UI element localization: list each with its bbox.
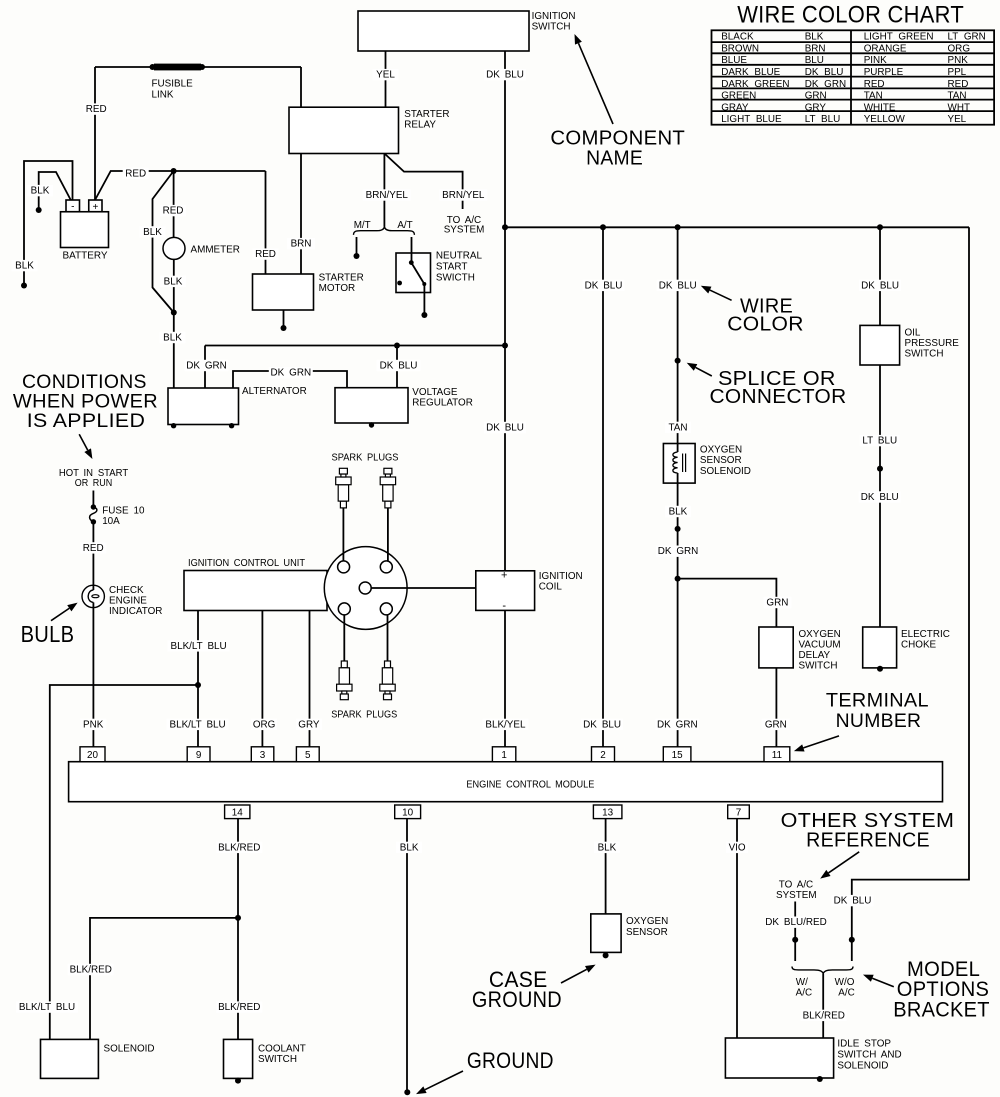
svg-text:SWICTH: SWICTH (436, 273, 475, 284)
svg-text:-: - (71, 202, 74, 213)
svg-text:VACUUM: VACUUM (799, 639, 841, 650)
svg-text:11: 11 (772, 750, 783, 761)
svg-text:REGULATOR: REGULATOR (412, 397, 473, 408)
svg-text:BLACK: BLACK (721, 32, 754, 43)
svg-text:CHECK: CHECK (109, 585, 144, 596)
svg-text:DK BLU: DK BLU (805, 67, 844, 78)
svg-text:3: 3 (260, 750, 266, 761)
svg-text:BRACKET: BRACKET (893, 998, 990, 1021)
svg-text:RED: RED (948, 79, 969, 90)
svg-text:ORG: ORG (253, 719, 276, 730)
svg-text:BROWN: BROWN (721, 43, 759, 54)
svg-text:IDLE STOP: IDLE STOP (837, 1039, 891, 1050)
svg-text:DK BLU: DK BLU (486, 70, 524, 81)
svg-text:BRN: BRN (291, 239, 312, 250)
svg-text:GROUND: GROUND (467, 1048, 554, 1073)
svg-text:INDICATOR: INDICATOR (109, 606, 162, 617)
svg-text:BLK: BLK (400, 842, 419, 853)
svg-text:LIGHT GREEN: LIGHT GREEN (864, 32, 934, 43)
svg-text:IGNITION: IGNITION (539, 571, 583, 582)
svg-text:SYSTEM: SYSTEM (776, 890, 817, 901)
svg-text:COLOR: COLOR (727, 313, 804, 335)
svg-text:14: 14 (232, 808, 243, 819)
svg-text:BLK/RED: BLK/RED (70, 964, 112, 975)
svg-text:SWITCH: SWITCH (905, 349, 944, 360)
svg-text:W/O: W/O (835, 977, 855, 988)
svg-text:AMMETER: AMMETER (191, 245, 240, 256)
svg-text:PINK: PINK (864, 55, 887, 66)
svg-text:DK GRN: DK GRN (658, 546, 699, 557)
svg-text:DK BLU: DK BLU (861, 492, 899, 503)
svg-text:SWITCH AND: SWITCH AND (837, 1050, 901, 1061)
svg-text:RELAY: RELAY (404, 120, 436, 131)
svg-text:BLK: BLK (15, 261, 34, 272)
svg-text:DELAY: DELAY (799, 650, 831, 661)
svg-text:COOLANT: COOLANT (258, 1044, 306, 1055)
svg-text:VOLTAGE: VOLTAGE (412, 387, 458, 398)
svg-text:WHITE: WHITE (864, 102, 896, 113)
svg-text:RED: RED (255, 249, 276, 260)
svg-text:VIO: VIO (729, 842, 746, 853)
svg-text:BLUE: BLUE (721, 55, 747, 66)
svg-text:COIL: COIL (539, 582, 563, 593)
svg-text:SOLENOID: SOLENOID (104, 1044, 155, 1055)
svg-text:CONDITIONS: CONDITIONS (22, 372, 147, 393)
svg-text:GRN: GRN (765, 719, 787, 730)
svg-text:LT GRN: LT GRN (948, 32, 986, 43)
svg-text:SWITCH: SWITCH (799, 660, 838, 671)
svg-text:ENGINE: ENGINE (109, 595, 147, 606)
svg-text:REFERENCE: REFERENCE (806, 829, 930, 851)
svg-text:BLK: BLK (805, 32, 824, 43)
svg-text:GROUND: GROUND (472, 987, 562, 1012)
svg-text:GRY: GRY (298, 719, 320, 730)
svg-text:TAN: TAN (948, 91, 967, 102)
svg-text:PURPLE: PURPLE (864, 67, 904, 78)
svg-text:W/: W/ (796, 977, 808, 988)
svg-text:ORG: ORG (948, 43, 971, 54)
svg-text:9: 9 (196, 750, 202, 761)
svg-text:BRN/YEL: BRN/YEL (442, 190, 485, 201)
svg-text:GREEN: GREEN (721, 91, 756, 102)
svg-text:COMPONENT: COMPONENT (550, 127, 685, 149)
svg-text:LT BLU: LT BLU (805, 114, 841, 125)
svg-text:SPARK PLUGS: SPARK PLUGS (332, 453, 399, 464)
svg-text:RED: RED (83, 543, 104, 554)
svg-text:BLK: BLK (163, 332, 182, 343)
svg-text:YEL: YEL (948, 114, 967, 125)
svg-text:A/C: A/C (796, 987, 812, 998)
svg-text:BLK: BLK (31, 186, 50, 197)
svg-text:PNK: PNK (83, 719, 104, 730)
svg-text:GRN: GRN (766, 597, 788, 608)
svg-text:PRESSURE: PRESSURE (905, 338, 960, 349)
svg-text:DK BLU: DK BLU (834, 896, 872, 907)
svg-text:DK BLU: DK BLU (861, 280, 899, 291)
svg-text:CHOKE: CHOKE (901, 639, 937, 650)
svg-text:ALTERNATOR: ALTERNATOR (242, 386, 307, 397)
svg-text:DK GRN: DK GRN (186, 360, 227, 371)
svg-text:LIGHT BLUE: LIGHT BLUE (721, 114, 782, 125)
svg-text:YEL: YEL (376, 70, 395, 81)
svg-text:NAME: NAME (586, 147, 643, 169)
svg-text:13: 13 (602, 808, 613, 819)
svg-text:BLK/YEL: BLK/YEL (485, 719, 526, 730)
svg-text:A/T: A/T (397, 220, 412, 231)
svg-text:SPARK PLUGS: SPARK PLUGS (331, 710, 397, 721)
svg-text:STARTER: STARTER (404, 109, 449, 120)
svg-text:RED: RED (163, 206, 184, 217)
svg-text:BLK: BLK (164, 276, 183, 287)
svg-text:FUSIBLE: FUSIBLE (152, 79, 194, 90)
svg-text:20: 20 (87, 750, 98, 761)
svg-text:OXYGEN: OXYGEN (799, 629, 841, 640)
svg-text:DK BLU/RED: DK BLU/RED (765, 917, 826, 928)
svg-text:WHEN POWER: WHEN POWER (13, 391, 158, 412)
svg-text:PPL: PPL (948, 67, 967, 78)
svg-text:ORANGE: ORANGE (864, 43, 907, 54)
svg-text:CONNECTOR: CONNECTOR (710, 386, 847, 408)
svg-text:2: 2 (600, 750, 606, 761)
svg-text:BLK: BLK (669, 506, 688, 517)
svg-text:10: 10 (402, 808, 413, 819)
svg-text:BLK/RED: BLK/RED (218, 1002, 260, 1013)
svg-text:IS APPLIED: IS APPLIED (27, 411, 145, 432)
svg-text:START: START (436, 261, 467, 272)
svg-text:NUMBER: NUMBER (836, 710, 922, 732)
svg-text:+: + (92, 202, 98, 213)
svg-text:DK BLU: DK BLU (486, 422, 524, 433)
svg-text:RED: RED (86, 104, 107, 115)
svg-text:ENGINE CONTROL MODULE: ENGINE CONTROL MODULE (466, 779, 594, 790)
svg-text:DARK BLUE: DARK BLUE (721, 67, 780, 78)
svg-text:BLK/RED: BLK/RED (803, 1010, 845, 1021)
svg-text:BLK: BLK (598, 842, 617, 853)
svg-text:GRN: GRN (805, 91, 827, 102)
svg-text:LINK: LINK (152, 89, 174, 100)
svg-text:SOLENOID: SOLENOID (837, 1061, 888, 1072)
svg-text:MOTOR: MOTOR (319, 283, 356, 294)
svg-text:DK BLU: DK BLU (583, 719, 621, 730)
svg-text:SYSTEM: SYSTEM (444, 225, 485, 236)
svg-text:IGNITION CONTROL UNIT: IGNITION CONTROL UNIT (188, 558, 305, 569)
svg-text:ELECTRIC: ELECTRIC (901, 629, 950, 640)
svg-text:DK BLU: DK BLU (659, 280, 697, 291)
svg-text:PNK: PNK (948, 55, 969, 66)
svg-text:IGNITION: IGNITION (532, 11, 576, 22)
svg-text:FUSE 10: FUSE 10 (102, 506, 145, 517)
svg-text:GRAY: GRAY (721, 102, 749, 113)
svg-text:WHT: WHT (948, 102, 970, 113)
svg-text:5: 5 (305, 750, 311, 761)
svg-text:BLU: BLU (805, 55, 824, 66)
svg-text:DK BLU: DK BLU (380, 360, 418, 371)
svg-text:BLK/LT BLU: BLK/LT BLU (171, 641, 227, 652)
svg-text:BLK: BLK (143, 227, 162, 238)
svg-text:DK BLU: DK BLU (585, 280, 623, 291)
svg-text:DARK GREEN: DARK GREEN (721, 79, 789, 90)
svg-text:M/T: M/T (354, 220, 371, 231)
svg-text:BLK/RED: BLK/RED (218, 842, 260, 853)
svg-text:-: - (502, 600, 506, 612)
svg-text:LT BLU: LT BLU (862, 436, 897, 447)
svg-text:BRN/YEL: BRN/YEL (366, 190, 409, 201)
svg-text:OR RUN: OR RUN (75, 478, 112, 489)
svg-text:NEUTRAL: NEUTRAL (436, 250, 483, 261)
svg-text:TO A/C: TO A/C (779, 879, 813, 890)
svg-text:SWITCH: SWITCH (258, 1054, 297, 1065)
svg-text:+: + (501, 570, 507, 582)
svg-text:BLK/LT BLU: BLK/LT BLU (170, 719, 226, 730)
svg-text:BULB: BULB (21, 621, 75, 647)
svg-text:DK GRN: DK GRN (657, 719, 698, 730)
svg-text:DK GRN: DK GRN (805, 79, 846, 90)
svg-text:BLK/LT BLU: BLK/LT BLU (19, 1002, 75, 1013)
svg-text:A/C: A/C (838, 987, 854, 998)
svg-text:OXYGEN: OXYGEN (700, 445, 742, 456)
svg-text:SOLENOID: SOLENOID (700, 466, 751, 477)
svg-text:TAN: TAN (864, 91, 883, 102)
svg-text:DK GRN: DK GRN (270, 368, 311, 379)
svg-text:RED: RED (125, 168, 146, 179)
svg-text:SWITCH: SWITCH (532, 21, 571, 32)
svg-text:STARTER: STARTER (319, 273, 364, 284)
svg-text:BRN: BRN (805, 43, 826, 54)
svg-text:WIRE COLOR CHART: WIRE COLOR CHART (737, 2, 964, 29)
svg-text:YELLOW: YELLOW (864, 114, 906, 125)
svg-text:7: 7 (736, 808, 742, 819)
svg-text:1: 1 (501, 750, 507, 761)
svg-text:OIL: OIL (905, 328, 921, 339)
svg-text:OXYGEN: OXYGEN (626, 916, 668, 927)
svg-text:10A: 10A (102, 516, 120, 527)
svg-text:15: 15 (672, 750, 683, 761)
svg-text:TERMINAL: TERMINAL (826, 690, 929, 712)
svg-text:BATTERY: BATTERY (63, 251, 108, 262)
svg-text:TAN: TAN (668, 422, 687, 433)
svg-text:SENSOR: SENSOR (700, 455, 742, 466)
svg-text:SENSOR: SENSOR (626, 927, 668, 938)
svg-text:GRY: GRY (805, 102, 827, 113)
svg-text:RED: RED (864, 79, 885, 90)
